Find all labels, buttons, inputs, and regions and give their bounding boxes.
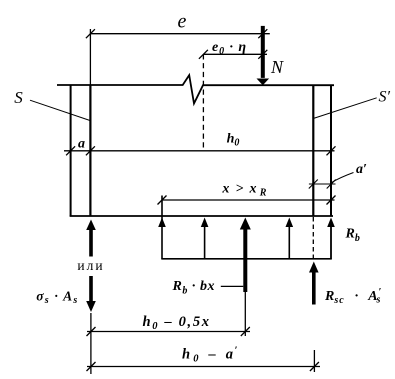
leader a' — [332, 173, 354, 183]
compression steel S' — [312, 85, 314, 216]
dimension line h0-0.5x — [87, 331, 250, 333]
svg-text:a: a — [78, 136, 85, 151]
tick h0-a' right — [310, 362, 319, 371]
force arrow N — [257, 26, 270, 85]
svg-text:или: или — [77, 258, 104, 273]
dimension line h0-a' — [87, 366, 320, 368]
tick a right — [86, 146, 95, 155]
svg-text:a′: a′ — [356, 162, 367, 177]
svg-text:N: N — [270, 57, 284, 77]
dimension line e — [86, 29, 270, 38]
tick a' right — [327, 180, 336, 189]
tension steel S — [89, 85, 91, 216]
down arrow (or) — [86, 276, 96, 312]
dimension line x>xR — [162, 199, 335, 201]
extension below resultant — [244, 292, 246, 336]
svg-text:e0 · η: e0 · η — [212, 40, 246, 57]
h0 dimension line — [64, 150, 335, 152]
dashed axis line — [202, 54, 204, 151]
dimension line e0*eta — [199, 50, 267, 59]
tick a left — [66, 146, 75, 155]
dashed compression steel inside block — [312, 217, 314, 259]
top edge with break — [57, 75, 334, 103]
leader Rb·bx — [221, 285, 244, 287]
tick x>xR left — [158, 196, 167, 205]
stress arrow 2 — [201, 218, 209, 259]
bottom edge — [70, 215, 333, 217]
extension left bottom — [90, 313, 92, 374]
extension below Rsc — [313, 350, 315, 372]
svg-text:S′: S′ — [379, 88, 391, 105]
stress arrow 4 — [286, 218, 294, 259]
tick h0-0.5x left — [87, 327, 96, 336]
svg-text:e: e — [178, 11, 187, 33]
svg-text:′: ′ — [235, 346, 238, 357]
tick h0-0.5x right — [241, 327, 250, 336]
stress block left edge arrow — [158, 196, 166, 259]
stress block right edge arrow — [327, 218, 335, 259]
up arrow (or) — [86, 220, 96, 257]
svg-text:S: S — [14, 88, 23, 107]
arrow Rsc·As' — [309, 262, 319, 305]
right face — [330, 85, 332, 216]
svg-text:Rb · bx: Rb · bx — [172, 279, 215, 297]
tick h0 right — [327, 146, 336, 155]
leader S — [30, 100, 90, 120]
dimension line a' — [309, 183, 336, 185]
left face — [70, 85, 72, 216]
tick x>xR right — [327, 196, 336, 205]
stress block bottom line — [161, 258, 331, 260]
tick a' left — [309, 180, 318, 189]
resultant arrow Rb·bx — [240, 218, 251, 293]
tick h0-a' left — [87, 362, 96, 371]
extension line at tension steel top — [89, 29, 91, 85]
leader S' — [314, 98, 377, 119]
